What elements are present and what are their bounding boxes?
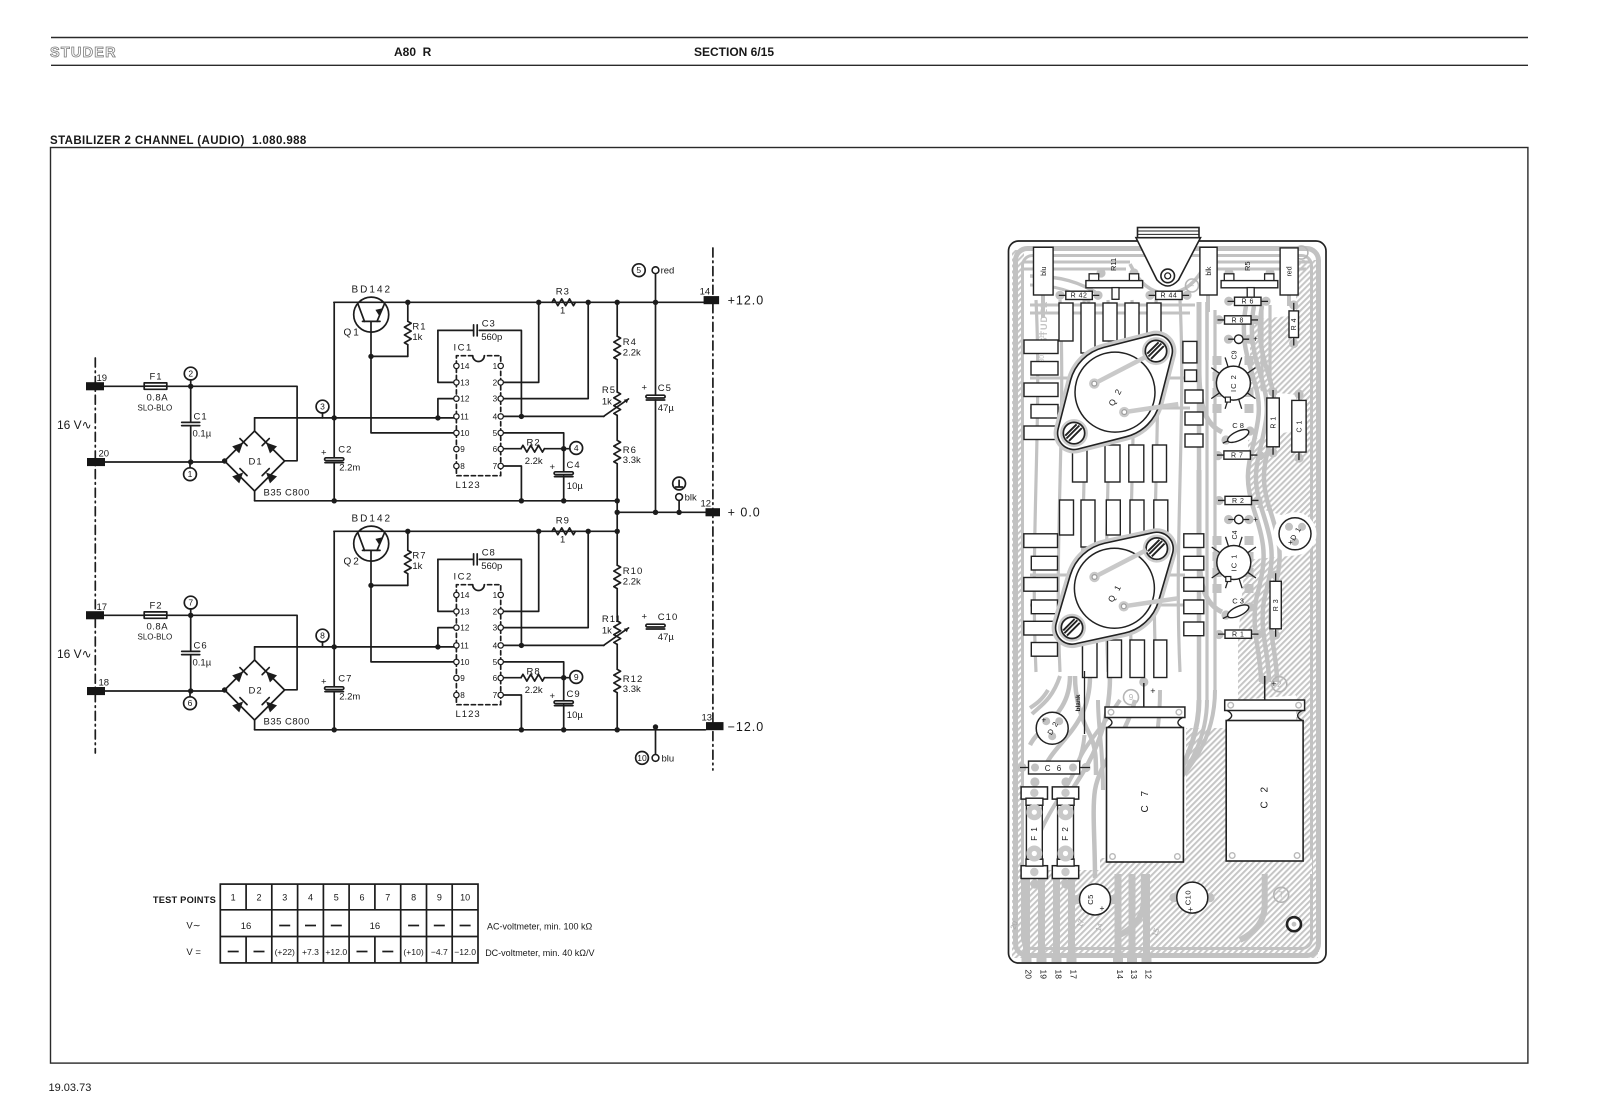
svg-text:C 7: C 7 bbox=[1140, 788, 1151, 813]
resistor R9 bbox=[552, 528, 575, 535]
svg-text:6: 6 bbox=[493, 445, 498, 454]
svg-text:2.2m: 2.2m bbox=[339, 692, 360, 703]
svg-text:20: 20 bbox=[99, 449, 110, 460]
trace top-left corner loops bbox=[1030, 276, 1100, 295]
svg-text:R 1: R 1 bbox=[1232, 632, 1244, 639]
svg-text:0.1µ: 0.1µ bbox=[193, 658, 212, 669]
wire shunt cap branch bbox=[190, 615, 192, 691]
trace big cap feeds bbox=[1118, 863, 1144, 936]
capacitor C7 bbox=[325, 687, 344, 690]
resistor R6 bbox=[1228, 300, 1269, 302]
svg-text:R9: R9 bbox=[556, 515, 570, 526]
svg-text:C5: C5 bbox=[1086, 894, 1095, 905]
svg-text:D2: D2 bbox=[249, 686, 263, 697]
terminal 17 bbox=[86, 611, 104, 619]
svg-text:C9: C9 bbox=[1232, 350, 1239, 359]
svg-text:+: + bbox=[1100, 903, 1105, 913]
svg-text:10µ: 10µ bbox=[567, 481, 584, 492]
wire collector rail node bbox=[334, 301, 704, 303]
svg-text:−12.0: −12.0 bbox=[728, 720, 765, 734]
terminal 13 (-12.0) bbox=[706, 722, 724, 730]
svg-text:2: 2 bbox=[493, 607, 498, 616]
svg-text:4: 4 bbox=[308, 893, 313, 903]
trace right of R6/R8 bbox=[1262, 300, 1270, 390]
svg-text:10: 10 bbox=[460, 893, 470, 903]
wire Q base drop / pin10 feed bbox=[371, 550, 456, 662]
svg-text:+7.3: +7.3 bbox=[302, 947, 319, 957]
capacitor C1 bbox=[182, 421, 200, 423]
svg-text:R11: R11 bbox=[1109, 258, 1118, 271]
svg-text:8: 8 bbox=[460, 462, 465, 471]
svg-text:+: + bbox=[1150, 686, 1155, 696]
svg-text:8: 8 bbox=[320, 631, 325, 641]
svg-text:14: 14 bbox=[460, 591, 470, 600]
svg-text:17: 17 bbox=[1069, 970, 1079, 980]
terminal 19 bbox=[86, 382, 104, 390]
svg-text:TEST POINTS: TEST POINTS bbox=[153, 895, 216, 905]
capacitor C5 bbox=[1080, 884, 1111, 915]
svg-text:1: 1 bbox=[560, 535, 565, 546]
svg-text:C3: C3 bbox=[482, 319, 496, 330]
trace ring inner bbox=[1023, 256, 1312, 949]
mounting hole bbox=[1287, 917, 1301, 931]
op-amp regulator IC1 (L123) bbox=[456, 356, 500, 476]
fuse F1 bbox=[1021, 787, 1047, 799]
svg-text:6: 6 bbox=[360, 893, 365, 903]
terminal 14 (+12.0) bbox=[704, 296, 720, 304]
svg-text:19: 19 bbox=[97, 373, 108, 384]
svg-text:1k: 1k bbox=[412, 332, 422, 343]
transistor Q1 (BD142) bbox=[354, 297, 389, 332]
wire input 20 to bridge bbox=[105, 461, 225, 463]
svg-text:C10: C10 bbox=[658, 612, 678, 623]
copper pour left band bbox=[1012, 250, 1024, 872]
wire input 17 to fuse to bridge bbox=[104, 615, 297, 690]
capacitor C3 bbox=[473, 325, 475, 336]
svg-text:+: + bbox=[642, 612, 648, 623]
svg-text:20: 20 bbox=[1024, 970, 1034, 980]
svg-text:R 1: R 1 bbox=[1271, 416, 1278, 428]
IC pin circles and numbers bbox=[454, 363, 459, 368]
wire pin12 drop to node line bbox=[438, 399, 457, 418]
IC2 (round can) bbox=[1247, 368, 1255, 374]
IC2 DIP pads bbox=[1213, 356, 1222, 365]
svg-text:R3: R3 bbox=[556, 286, 570, 297]
svg-text:1: 1 bbox=[493, 362, 498, 371]
svg-text:BD142: BD142 bbox=[352, 514, 393, 525]
svg-text:2: 2 bbox=[493, 378, 498, 387]
node 4 bbox=[570, 442, 583, 455]
trace bottom pad stubs bbox=[1023, 878, 1030, 961]
capacitor C8 bbox=[1221, 427, 1251, 447]
svg-text:12: 12 bbox=[701, 499, 712, 510]
junction dots bbox=[222, 458, 227, 463]
trace heatsink to fuses fan bbox=[1043, 676, 1090, 772]
wire channel bottom rail bbox=[255, 729, 706, 731]
capacitor C5 bbox=[646, 395, 665, 398]
trace mid column verticals bbox=[1197, 302, 1202, 700]
left board-edge dash-dot line bbox=[94, 358, 96, 753]
svg-text:B35 C800: B35 C800 bbox=[264, 488, 310, 499]
svg-text:9: 9 bbox=[460, 445, 465, 454]
svg-text:R 2: R 2 bbox=[1232, 498, 1244, 505]
svg-text:2: 2 bbox=[188, 369, 193, 379]
mounting bracket bbox=[1136, 238, 1201, 286]
diode bridge D1 bbox=[1279, 518, 1311, 550]
ghost circled marks bbox=[1186, 279, 1199, 292]
trace top-right run bbox=[1205, 262, 1310, 269]
terminal 12 (+0.0) bbox=[706, 508, 721, 516]
node 3 bbox=[322, 413, 324, 418]
node 7 bbox=[190, 609, 192, 616]
diode bridge D2 bbox=[1036, 712, 1068, 744]
wire C-feedback top bbox=[438, 330, 522, 416]
svg-text:blk: blk bbox=[1206, 266, 1213, 275]
svg-text:7: 7 bbox=[385, 893, 390, 903]
wire input 18 to bridge bbox=[105, 690, 225, 692]
capacitor C1 (vertical) bbox=[1298, 392, 1300, 460]
svg-text:+: + bbox=[1253, 335, 1258, 344]
node 9 bbox=[570, 671, 583, 684]
capacitor C8 bbox=[473, 554, 475, 565]
node 2 bbox=[190, 380, 192, 387]
svg-text:16: 16 bbox=[370, 921, 381, 932]
terminal 20 bbox=[87, 458, 105, 466]
wire C-feedback top bbox=[438, 559, 522, 645]
PCB board outline bbox=[1009, 241, 1327, 963]
trace IC2 left loop bbox=[1199, 302, 1222, 432]
svg-text:R2: R2 bbox=[527, 437, 541, 448]
svg-text:3: 3 bbox=[493, 624, 498, 633]
connector wire label blu bbox=[1034, 247, 1054, 295]
fuse F1 bbox=[144, 383, 167, 389]
wire pin7 net bbox=[501, 466, 522, 501]
drawing frame bbox=[51, 148, 1528, 1064]
svg-text:7: 7 bbox=[188, 598, 193, 608]
svg-text:10µ: 10µ bbox=[567, 710, 584, 721]
svg-text:6: 6 bbox=[188, 698, 193, 708]
svg-text:blk: blk bbox=[685, 493, 697, 504]
svg-text:C 3: C 3 bbox=[1232, 596, 1244, 605]
svg-text:STUDER: STUDER bbox=[50, 45, 117, 61]
bridge rectifier D2 bbox=[225, 660, 285, 720]
resistor R1 leads bbox=[407, 302, 409, 356]
node 1 bbox=[189, 462, 191, 468]
svg-text:C7: C7 bbox=[338, 674, 352, 685]
capacitor C10 bbox=[646, 624, 665, 627]
heatsink fins Q1 bbox=[1060, 500, 1074, 535]
svg-text:2.2k: 2.2k bbox=[623, 577, 641, 588]
svg-text:+: + bbox=[1042, 716, 1047, 725]
resistor R10 bbox=[616, 531, 618, 565]
svg-text:−: − bbox=[1190, 281, 1195, 290]
trace bundle right of ICs bbox=[1244, 306, 1264, 682]
svg-text:A80 R: A80 R bbox=[394, 45, 432, 59]
wire channel bottom rail bbox=[255, 500, 618, 502]
svg-text:IC2: IC2 bbox=[454, 571, 473, 582]
svg-text:0.1µ: 0.1µ bbox=[193, 429, 212, 440]
capacitor C4 bbox=[1228, 519, 1249, 521]
svg-text:C6: C6 bbox=[194, 641, 208, 652]
svg-text:SLO-BLO: SLO-BLO bbox=[138, 632, 173, 641]
svg-text:DC-voltmeter, min. 40 kΩ/V: DC-voltmeter, min. 40 kΩ/V bbox=[485, 948, 594, 958]
svg-text:+: + bbox=[321, 448, 327, 459]
wire shunt cap branch bbox=[190, 386, 192, 462]
capacitor C9 bbox=[1228, 338, 1249, 340]
svg-text:3.3k: 3.3k bbox=[623, 684, 641, 695]
transistor Q1 (TO-3 on heatsink) bbox=[1029, 504, 1201, 673]
svg-text:R 44: R 44 bbox=[1160, 293, 1177, 300]
svg-text:1: 1 bbox=[560, 306, 565, 317]
svg-text:R4: R4 bbox=[623, 337, 637, 348]
wire pin7 net bbox=[501, 695, 522, 730]
trace stubs from top connector boxes bbox=[1043, 295, 1289, 318]
svg-text:B35 C800: B35 C800 bbox=[264, 717, 310, 728]
trace top-left run bbox=[1024, 262, 1130, 269]
svg-text:13: 13 bbox=[460, 378, 470, 387]
svg-text:1: 1 bbox=[188, 469, 193, 479]
svg-text:F2: F2 bbox=[150, 601, 163, 612]
node 8 bbox=[322, 642, 324, 647]
resistor R8 bbox=[1218, 319, 1259, 321]
wire pin3 net bbox=[501, 531, 589, 627]
svg-text:11: 11 bbox=[460, 412, 469, 421]
svg-text:560p: 560p bbox=[481, 332, 502, 343]
svg-text:47µ: 47µ bbox=[658, 403, 675, 414]
trace ring outer bbox=[1016, 249, 1319, 956]
wire C-feedback left vertical / pin13 bbox=[438, 330, 457, 382]
capacitor C2 (electrolytic can) bbox=[1264, 676, 1266, 700]
header rule bottom bbox=[51, 64, 1528, 66]
op-amp regulator IC2 (L123) bbox=[456, 585, 500, 705]
svg-text:C8: C8 bbox=[482, 548, 496, 559]
svg-text:7: 7 bbox=[493, 691, 498, 700]
resistor R12 bbox=[616, 644, 618, 669]
svg-text:7: 7 bbox=[493, 462, 498, 471]
svg-text:D1: D1 bbox=[249, 457, 263, 468]
svg-text:R 6: R 6 bbox=[1242, 299, 1254, 306]
svg-text:1k: 1k bbox=[412, 561, 422, 572]
resistor R1 (vertical, ch2) bbox=[1272, 390, 1274, 455]
svg-text:4: 4 bbox=[493, 641, 498, 650]
svg-text:4: 4 bbox=[493, 412, 498, 421]
svg-text:2.2k: 2.2k bbox=[525, 456, 543, 467]
trace top horizontal runs under resistor row bbox=[1030, 305, 1195, 313]
svg-text:4: 4 bbox=[574, 443, 579, 453]
svg-text:3: 3 bbox=[282, 893, 287, 903]
svg-text:AC-voltmeter, min. 100 kΩ: AC-voltmeter, min. 100 kΩ bbox=[487, 922, 593, 932]
svg-text:9: 9 bbox=[437, 893, 442, 903]
svg-text:2.2m: 2.2m bbox=[339, 463, 360, 474]
IC1 (round can) bbox=[1248, 547, 1256, 553]
resistor R6 bbox=[616, 415, 618, 440]
lead pads bbox=[1055, 291, 1064, 300]
svg-text:red: red bbox=[1287, 266, 1294, 276]
svg-text:3.3k: 3.3k bbox=[623, 455, 641, 466]
svg-text:BD142: BD142 bbox=[352, 285, 393, 296]
svg-text:SECTION 6/15: SECTION 6/15 bbox=[694, 45, 774, 59]
svg-text:5: 5 bbox=[493, 429, 498, 438]
trace runs under heatsink field bbox=[1034, 300, 1037, 672]
trace horizontal runs through fin field bbox=[1030, 378, 1195, 605]
wire unregulated node vertical (rail to node line to C2) bbox=[333, 302, 335, 501]
svg-text:C10: C10 bbox=[1183, 890, 1192, 905]
svg-text:blank: blank bbox=[1075, 694, 1082, 711]
svg-text:560p: 560p bbox=[481, 561, 502, 572]
resistor R1 bbox=[1218, 633, 1259, 635]
svg-text:5: 5 bbox=[493, 658, 498, 667]
svg-text:−4.7: −4.7 bbox=[431, 947, 448, 957]
svg-text:R5: R5 bbox=[602, 385, 616, 396]
IC1 DIP pads bbox=[1213, 536, 1222, 545]
svg-text:8: 8 bbox=[460, 691, 465, 700]
svg-text:18: 18 bbox=[99, 678, 110, 689]
trimmer R5 bbox=[1224, 274, 1234, 281]
connector wire label blk bbox=[1200, 247, 1217, 295]
svg-text:R11: R11 bbox=[602, 614, 622, 625]
svg-text:2.2k: 2.2k bbox=[525, 685, 543, 696]
test point 5 (red) bbox=[655, 274, 657, 513]
capacitor C9 bbox=[563, 678, 565, 730]
svg-text:0.8A: 0.8A bbox=[147, 393, 169, 404]
copper pour right band bbox=[1296, 260, 1319, 952]
wire node 8 line bbox=[255, 646, 457, 648]
svg-text:12: 12 bbox=[460, 624, 470, 633]
svg-text:V =: V = bbox=[186, 947, 201, 958]
svg-text:R7: R7 bbox=[412, 550, 426, 561]
svg-text:−12.0: −12.0 bbox=[454, 947, 476, 957]
wire pin4 net bbox=[501, 644, 604, 646]
svg-text:C 1: C 1 bbox=[1296, 420, 1303, 432]
junction dots bbox=[222, 687, 227, 692]
svg-text:3: 3 bbox=[320, 402, 325, 412]
svg-text:12: 12 bbox=[460, 395, 470, 404]
resistor R3 (vertical) bbox=[1275, 573, 1277, 637]
svg-text:1k: 1k bbox=[602, 625, 612, 636]
svg-text:R 42: R 42 bbox=[1071, 293, 1088, 300]
svg-text:Q2: Q2 bbox=[344, 557, 361, 568]
wire pin12 drop to node line bbox=[438, 628, 457, 647]
test point 10 (blu) bbox=[655, 727, 657, 755]
wire pin2 net bbox=[501, 531, 539, 611]
svg-text:19.03.73: 19.03.73 bbox=[49, 1082, 92, 1094]
trace heatsink to D2 / C6 sweeps bbox=[1032, 676, 1060, 714]
svg-text:13: 13 bbox=[1129, 970, 1139, 980]
svg-text:+: + bbox=[1253, 515, 1258, 524]
wire pin4 net bbox=[501, 415, 604, 417]
svg-text:Q1: Q1 bbox=[344, 328, 361, 339]
capacitor C7 (electrolytic can) bbox=[1143, 683, 1145, 707]
wire C-feedback left vertical / pin13 bbox=[438, 559, 457, 611]
capacitor C4 bbox=[563, 449, 565, 501]
svg-text:+ 0.0: + 0.0 bbox=[728, 506, 761, 520]
wire pin2 net bbox=[501, 302, 539, 382]
copper pour under caps bottoms bbox=[1100, 858, 1312, 874]
svg-text:+: + bbox=[1271, 679, 1276, 689]
potentiometer R11 bbox=[616, 589, 618, 621]
wire bridge top/bottom risers bbox=[254, 418, 256, 501]
svg-text:9: 9 bbox=[574, 672, 579, 682]
resistor R42 bbox=[1059, 294, 1100, 296]
svg-text:3: 3 bbox=[493, 395, 498, 404]
svg-text:F1: F1 bbox=[150, 372, 163, 383]
svg-text:T: T bbox=[1279, 891, 1284, 900]
svg-text:C5: C5 bbox=[658, 383, 672, 394]
svg-text:IC 1: IC 1 bbox=[1229, 554, 1238, 572]
wire unregulated node vertical (rail to node line to C2) bbox=[333, 531, 335, 730]
ground symbol / test point blk bbox=[673, 477, 686, 490]
svg-text:L123: L123 bbox=[456, 480, 481, 491]
capacitor C6 bbox=[182, 650, 200, 652]
svg-text:C9: C9 bbox=[567, 689, 581, 700]
svg-text:red: red bbox=[661, 266, 675, 277]
copper pour bottom band bbox=[1012, 870, 1318, 958]
fuse F2 bbox=[144, 612, 167, 618]
svg-text:2.2k: 2.2k bbox=[623, 348, 641, 359]
resistor R3 bbox=[552, 299, 575, 306]
svg-text:13: 13 bbox=[702, 713, 713, 724]
svg-text:8: 8 bbox=[411, 893, 416, 903]
svg-text:R1: R1 bbox=[412, 321, 426, 332]
svg-text:C4: C4 bbox=[1232, 530, 1239, 539]
svg-text:13: 13 bbox=[460, 607, 470, 616]
resistor R7 bbox=[1217, 454, 1258, 456]
header rule top bbox=[51, 37, 1528, 39]
right board-edge dash-dot line bbox=[712, 248, 714, 770]
svg-text:1: 1 bbox=[493, 591, 498, 600]
capacitor C10 bbox=[1177, 882, 1208, 913]
svg-text:+: + bbox=[1188, 904, 1193, 914]
resistor R44 bbox=[1149, 294, 1190, 296]
svg-text:F 2: F 2 bbox=[1061, 826, 1070, 841]
svg-text:10: 10 bbox=[637, 753, 647, 763]
svg-text:R 4: R 4 bbox=[1291, 318, 1298, 330]
capacitor C3 bbox=[1221, 602, 1251, 622]
wire bridge top/bottom risers bbox=[254, 647, 256, 730]
connector wire label red bbox=[1280, 248, 1298, 295]
resistor R4 (vertical) bbox=[1293, 303, 1295, 346]
trimmer R11 bbox=[1089, 274, 1099, 281]
svg-text:R8: R8 bbox=[527, 666, 541, 677]
capacitor C2 bbox=[325, 458, 344, 461]
fuse F2 bbox=[1052, 787, 1078, 799]
svg-text:14: 14 bbox=[460, 362, 470, 371]
svg-text:+: + bbox=[1288, 538, 1293, 547]
svg-text:18: 18 bbox=[1054, 970, 1064, 980]
svg-text:STABILIZER 2 CHANNEL (AUDIO): STABILIZER 2 CHANNEL (AUDIO) 1.080.988 bbox=[50, 135, 307, 147]
bridge rectifier D1 bbox=[225, 431, 285, 491]
svg-text:+: + bbox=[550, 462, 556, 473]
svg-text:(+10): (+10) bbox=[403, 947, 423, 957]
wire Q base drop / pin10 feed bbox=[371, 321, 456, 433]
svg-text:9: 9 bbox=[460, 674, 465, 683]
label blank with leader bbox=[1084, 671, 1086, 734]
copper pour mid-right patches bbox=[1248, 430, 1298, 520]
svg-text:F 1: F 1 bbox=[1030, 826, 1039, 841]
svg-text:R 3: R 3 bbox=[1273, 599, 1280, 611]
transistor Q2 (BD142) bbox=[354, 526, 389, 561]
svg-text:16: 16 bbox=[241, 921, 252, 932]
svg-text:C 2: C 2 bbox=[1260, 784, 1271, 809]
svg-text:47µ: 47µ bbox=[658, 632, 675, 643]
terminal 18 bbox=[87, 687, 105, 695]
resistor R8 bbox=[501, 677, 570, 679]
transistor Q2 (TO-3 on heatsink) bbox=[1030, 307, 1200, 477]
heatsink fins Q2 bbox=[1059, 303, 1073, 341]
wire collector rail node bbox=[334, 512, 617, 531]
copper pour between big caps bbox=[1186, 728, 1226, 870]
svg-text:C1: C1 bbox=[194, 412, 208, 423]
